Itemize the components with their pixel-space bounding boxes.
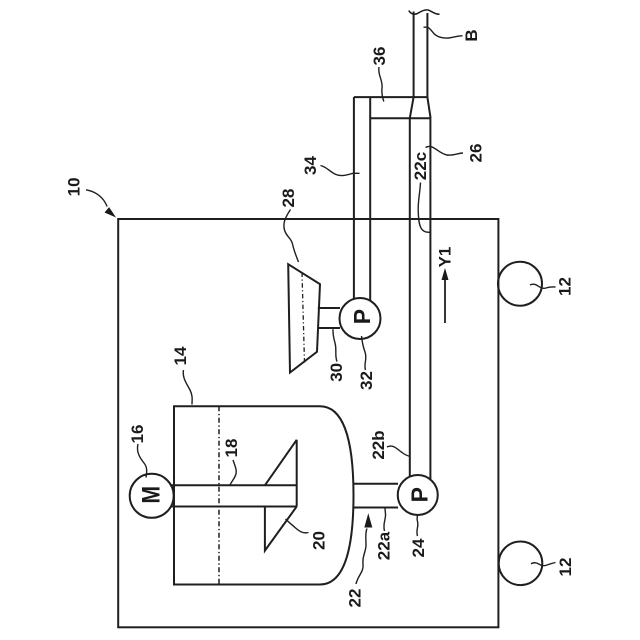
pipe 22b / 22c vertical: [410, 118, 431, 479]
svg-text:P: P: [407, 487, 433, 502]
svg-text:10: 10: [65, 177, 84, 196]
tank 14: [174, 406, 354, 584]
svg-text:14: 14: [171, 346, 190, 365]
leader 22b: [387, 446, 411, 456]
svg-text:28: 28: [279, 189, 298, 208]
arrowhead of leader 10: [105, 207, 117, 217]
svg-text:22a: 22a: [375, 531, 394, 560]
pump 32 circle: [340, 298, 381, 339]
tank center dash-dot line: [218, 406, 220, 584]
leader B: [424, 27, 463, 38]
svg-text:P: P: [349, 309, 375, 324]
pump 24 circle: [398, 475, 438, 515]
leader 28: [284, 210, 299, 263]
svg-text:36: 36: [370, 47, 389, 66]
big letters M and P: [138, 309, 433, 504]
svg-text:26: 26: [467, 144, 486, 163]
leader 18: [230, 460, 237, 486]
Y1 direction arrow: [444, 272, 446, 323]
leader 22a: [384, 508, 386, 531]
duct 36 horizontal lines: [354, 97, 431, 118]
svg-text:24: 24: [409, 538, 428, 557]
suction pipe 30: [318, 308, 340, 328]
leader 30: [333, 329, 337, 361]
svg-text:32: 32: [357, 371, 376, 390]
svg-text:30: 30: [327, 363, 346, 382]
svg-text:12: 12: [556, 558, 575, 577]
svg-text:18: 18: [222, 439, 241, 458]
stirrer blade lower 20: [265, 507, 297, 551]
leader 16: [137, 444, 146, 478]
pipe 22a tank to pump: [353, 484, 399, 508]
leader 22c: [418, 183, 430, 233]
arrowhead of leader 22: [364, 513, 372, 527]
wheel 12 rear: [499, 542, 543, 586]
break wave at pipe B top: [409, 10, 440, 14]
svg-text:34: 34: [301, 156, 320, 175]
wheel 12 front: [498, 262, 542, 306]
svg-text:12: 12: [556, 277, 575, 296]
stirrer shaft 18: [170, 440, 297, 507]
hopper 28: [288, 264, 320, 372]
leader 20: [286, 519, 309, 533]
svg-text:22b: 22b: [369, 430, 388, 459]
leader 22 with arrow: [356, 529, 367, 585]
svg-text:B: B: [462, 29, 481, 41]
leader 24: [417, 515, 418, 536]
pipe 34 vertical: [354, 97, 370, 301]
svg-text:Y1: Y1: [436, 247, 455, 268]
taper between duct and pipe B: [410, 97, 431, 118]
vehicle body rectangle 10: [118, 219, 498, 627]
leader 36: [379, 67, 384, 102]
leader 14: [183, 370, 192, 405]
labels (rotated -90): [65, 29, 575, 607]
leader 12 front: [530, 284, 556, 288]
svg-text:20: 20: [310, 531, 329, 550]
svg-text:22c: 22c: [411, 152, 430, 180]
motor circle 16: [130, 474, 174, 518]
svg-text:16: 16: [128, 425, 147, 444]
leader 26: [426, 146, 464, 155]
leader lines: [86, 27, 556, 584]
pipe B vertical: [414, 12, 428, 98]
svg-text:M: M: [138, 486, 166, 504]
leader 34: [321, 166, 360, 176]
hopper dash-dot line: [302, 273, 305, 364]
leader 32: [362, 336, 366, 370]
leader 10: [86, 190, 107, 207]
leader 12 rear: [531, 563, 556, 566]
svg-text:22: 22: [345, 589, 364, 608]
stirrer blade upper: [265, 440, 297, 486]
